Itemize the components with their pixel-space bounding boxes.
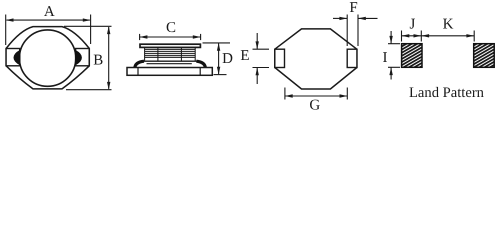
svg-text:I: I xyxy=(383,50,388,66)
dimension G line with arrows xyxy=(285,95,347,97)
bottom view left terminal xyxy=(275,49,285,67)
dimension G extension lines xyxy=(284,88,286,100)
dimension K line with arrows xyxy=(421,35,474,37)
side view top flange xyxy=(140,44,200,47)
top view body (octagon with chamfered corners) xyxy=(6,27,89,89)
svg-text:J: J xyxy=(409,17,415,33)
dimension J/K end ticks xyxy=(401,31,403,42)
side view winding stack xyxy=(145,47,196,61)
dimension I extension ticks xyxy=(388,43,400,45)
land pattern right pad xyxy=(474,44,495,68)
dimension A extension lines xyxy=(5,15,7,46)
dimension D extension lines xyxy=(203,42,231,44)
bottom flange inner line xyxy=(147,63,192,65)
left electrode blob xyxy=(14,50,20,65)
dimension J line with arrows xyxy=(402,35,422,37)
dimension C line with arrows xyxy=(140,36,201,38)
svg-text:E: E xyxy=(240,48,249,64)
drum core circle xyxy=(19,30,75,86)
svg-text:K: K xyxy=(443,17,454,33)
bottom view body octagon xyxy=(275,29,357,89)
dimension A line with arrows xyxy=(7,19,90,21)
dimension E extension lines xyxy=(253,48,270,50)
svg-text:B: B xyxy=(93,53,103,69)
dimension F line with outside arrows xyxy=(333,17,347,19)
svg-text:F: F xyxy=(349,0,357,16)
dimension E line with outside arrows xyxy=(256,33,258,49)
side view bottom flange top edge xyxy=(142,60,198,62)
bottom flange left black corner xyxy=(135,61,144,68)
svg-text:D: D xyxy=(222,51,233,67)
dimension I line with outside arrows xyxy=(390,31,392,44)
dimension D line with arrows xyxy=(218,44,220,75)
left terminal ear xyxy=(6,49,20,66)
bottom view right terminal xyxy=(347,49,357,67)
svg-text:C: C xyxy=(166,20,176,36)
svg-text:G: G xyxy=(309,98,320,114)
dimension B line with arrows xyxy=(108,27,110,89)
dimension C end ticks xyxy=(139,34,141,40)
base plate right terminal divider xyxy=(199,68,201,76)
bottom flange right black corner xyxy=(196,61,205,68)
base plate left terminal divider xyxy=(137,68,139,76)
right terminal ear xyxy=(76,49,90,66)
right electrode blob xyxy=(75,50,81,65)
dimension B extension lines xyxy=(64,25,112,27)
svg-text:A: A xyxy=(44,4,55,20)
land pattern left pad xyxy=(402,44,422,68)
side view base plate xyxy=(127,68,212,76)
dimension F extension lines xyxy=(346,15,348,47)
svg-text:Land Pattern: Land Pattern xyxy=(409,85,485,101)
